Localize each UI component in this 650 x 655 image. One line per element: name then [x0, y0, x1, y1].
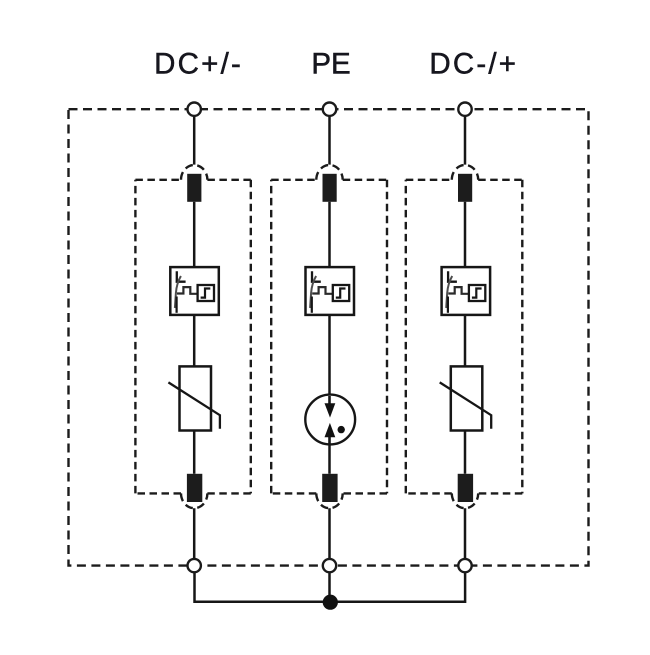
plug-in arc bottom, module 1	[181, 493, 207, 508]
plug-in arc bottom, module 3	[452, 493, 478, 508]
module 3 dashed outline (DC-/+ plug module)	[406, 180, 523, 494]
contact bar bottom, module 2	[322, 474, 337, 502]
junction dot on bus at PE	[323, 595, 338, 610]
svg-text:PE: PE	[311, 48, 350, 81]
plug-in arc top, module 1	[181, 165, 207, 180]
wire: bottom equipotential bus	[195, 572, 466, 601]
thermal disconnect / monitoring device, module 1	[170, 267, 219, 315]
wire: PE drop to bus	[328, 572, 331, 601]
thermal disconnect / monitoring device, module 3	[442, 267, 491, 315]
plug-in arc top, module 3	[452, 165, 478, 180]
node label DC+/-	[154, 48, 243, 81]
contact bar bottom, module 3	[458, 474, 473, 502]
node label PE	[311, 48, 350, 81]
terminal DC-/+ bottom	[458, 559, 471, 572]
svg-text:DC+/-: DC+/-	[154, 48, 243, 81]
thermal disconnect / monitoring device, module 2	[306, 267, 355, 315]
enclosure: outer dashed boundary box	[69, 109, 589, 565]
node label DC-/+	[429, 48, 518, 81]
terminal DC+/- bottom	[188, 559, 201, 572]
terminal DC-/+ top	[458, 103, 471, 116]
wire: DC-/+ branch vertical	[464, 116, 467, 559]
module 2 dashed outline (PE plug module)	[271, 180, 387, 494]
varistor RV2 (DC-/+ branch)	[440, 366, 492, 430]
svg-text:DC-/+: DC-/+	[429, 48, 518, 81]
module 1 dashed outline (DC+/- plug module)	[135, 180, 250, 494]
spark gap F1 (PE branch)	[305, 395, 355, 445]
plug-in arc top, module 2	[316, 165, 342, 180]
contact bar top, module 3	[458, 174, 472, 202]
terminal DC+/- top	[188, 103, 201, 116]
contact bar top, module 1	[187, 174, 201, 202]
terminal PE top	[323, 103, 336, 116]
contact bar bottom, module 1	[187, 474, 202, 502]
varistor RV1 (DC+/- branch)	[168, 366, 220, 430]
terminal PE bottom	[323, 559, 336, 572]
wire: PE branch vertical	[328, 116, 331, 559]
wire: DC+/- branch vertical	[193, 116, 196, 559]
contact bar top, module 2	[323, 174, 337, 202]
plug-in arc bottom, module 2	[316, 493, 342, 508]
